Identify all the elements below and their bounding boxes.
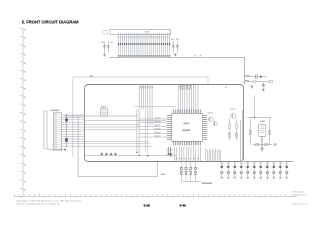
driver left wire + resistor: [249, 118, 251, 145]
wire drop to board at right: [244, 57, 246, 84]
svg-text:Use Only. Service: Use Only. Service: [292, 194, 307, 197]
cap blob lower: [65, 138, 68, 141]
cap below stub2: [262, 82, 265, 90]
caps on analog wire: [101, 152, 117, 155]
top-right stub wire 1: [244, 76, 256, 78]
wire left loop vertical x78: [77, 116, 79, 177]
label stub2: [245, 80, 249, 81]
IC201 bottom pins: [174, 141, 201, 145]
IC201 left pins: [167, 116, 172, 140]
+B label near riser: [161, 174, 165, 175]
wire y106.4: [134, 105, 176, 107]
wire VCC feed y77: [73, 76, 208, 78]
CN201 bottom wire: [47, 149, 65, 151]
ground right of CN250: [174, 53, 177, 56]
inner bus verticals: [137, 109, 148, 156]
wire left loop riser x157: [156, 162, 158, 177]
connector CN201 label: [51, 110, 60, 112]
bottom line extension: [244, 161, 294, 163]
svg-text:Only for training and service: Only for training and service purposes.: [16, 203, 61, 206]
connector CN250 body: [110, 29, 171, 34]
connector CN250 pin lines: [118, 33, 171, 57]
svg-text:CN2: CN2: [145, 31, 150, 33]
node label on y77 wire: [90, 75, 93, 76]
driver top rail: [247, 96, 271, 119]
ground left of CN250: [103, 53, 106, 57]
led/key group right: [219, 162, 288, 179]
transistors right of IC: [208, 112, 218, 125]
cap blob upper: [65, 118, 68, 121]
diode blob on stub1: [260, 75, 262, 78]
wire left loop vertical x73: [72, 77, 74, 157]
pin 1 mark: [225, 86, 226, 88]
left ruler: [20, 28, 26, 197]
driver right wire + resistor: [269, 118, 271, 145]
+B box top right: [269, 81, 272, 83]
IC201 VFD driver body: [172, 113, 203, 141]
top-right stub wire 2: [244, 81, 254, 83]
IC left pin wires and labels: [139, 118, 167, 138]
wire y120.8: [85, 120, 167, 122]
VFD pin number strip right (hatch): [180, 85, 192, 89]
IC201 label: [182, 123, 190, 131]
key group left: [180, 162, 201, 182]
svg-text:LG Electronics Inc.: LG Electronics Inc.: [292, 202, 308, 205]
CN201 bottom junction dot: [64, 149, 66, 151]
junction dots inner bus: [136, 152, 148, 157]
bottom-left analog wire: [85, 155, 177, 157]
label stub1: [245, 75, 250, 76]
capacitors right of CN250: [171, 39, 179, 53]
capacitors left of CN250: [101, 31, 113, 53]
board right edge inner verticals: [240, 110, 242, 162]
connector CN201 body: [53, 113, 62, 150]
wire drop at x208: [207, 77, 209, 85]
driver block right of board: [259, 121, 266, 137]
wire bundle A: [139, 85, 152, 126]
ground below stub2 cap: [262, 90, 265, 92]
wire left loop bottom: [78, 176, 157, 178]
svg-text:Copyright © 2010 LG Electronic: Copyright © 2010 LG Electronics. Inc. Al…: [16, 200, 82, 203]
footer copyright: [16, 200, 82, 206]
capacitor on stub1: [256, 75, 260, 79]
svg-text:LGE Internal: LGE Internal: [293, 191, 304, 194]
junction dot analog: [147, 155, 148, 156]
ground driver: [260, 149, 264, 151]
svg-text:5-28: 5-28: [144, 203, 150, 207]
IC201 top pins: [174, 110, 201, 114]
svg-text:5-46: 5-46: [180, 203, 186, 207]
board outline (front pcb): [85, 85, 244, 162]
crystal X201: [100, 106, 107, 116]
wire connector bottom bus: [109, 56, 244, 58]
connector CN201 cable rect: [44, 111, 47, 148]
IC lower-left dark wires: [166, 147, 173, 157]
footer right note: [292, 191, 308, 206]
VFD pin number strip left: [140, 86, 153, 88]
wire after diode: [263, 76, 267, 78]
CN201 wires to board: [62, 114, 153, 147]
IC bottom bus wires: [174, 147, 200, 162]
ground below stub1: [251, 84, 254, 88]
bottom ruler: [14, 194, 296, 197]
wire bundle B: [178, 85, 198, 111]
arrow sym right of driver: [274, 143, 277, 146]
wire y116 from connector into board: [64, 115, 137, 117]
transistor cluster right inside board: [229, 109, 238, 140]
driver bottom rail: [252, 136, 272, 148]
svg-text:5. FRONT CIRCUIT DIAGRAM: 5. FRONT CIRCUIT DIAGRAM: [22, 20, 79, 25]
key group left label: [202, 182, 212, 184]
IC right bus wires: [206, 149, 221, 162]
wire stub2 cont: [256, 81, 269, 83]
IC201 right pins: [203, 116, 208, 140]
bus pin number marks: [195, 55, 202, 57]
resistor on stub2: [253, 81, 256, 83]
